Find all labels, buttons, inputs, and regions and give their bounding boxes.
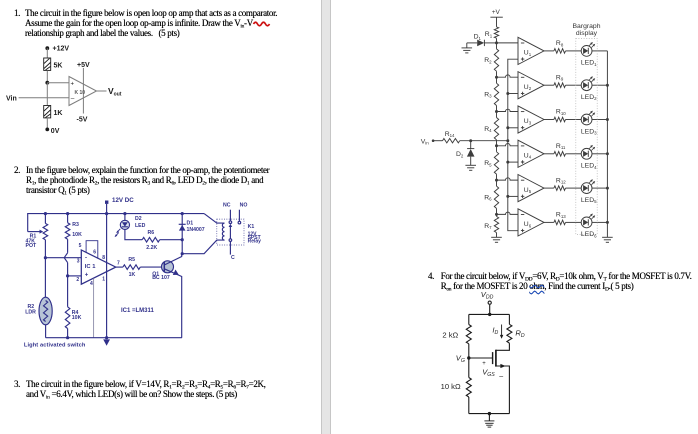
junction node 5 <box>495 179 498 182</box>
wire Vin to op-amp - input <box>19 97 69 99</box>
top bus wire <box>469 313 510 315</box>
U5 inverting mark <box>521 179 524 181</box>
resistor 1K <box>44 106 51 118</box>
wire R11 to LED4 <box>566 153 582 155</box>
wire plus bus to U2 <box>508 93 518 95</box>
supply rail +5V/-5V <box>82 68 84 114</box>
photoresistor R2 LDR <box>39 297 52 325</box>
pin 4 wire to ground bus <box>93 278 95 337</box>
wire op-amp output pin 7 to R5 <box>116 266 123 268</box>
junction plus bus row 3 <box>506 126 509 129</box>
wire node to relay coil bottom <box>182 240 224 254</box>
svg-text:2 kΩ: 2 kΩ <box>442 330 458 339</box>
page gap separator <box>321 0 331 434</box>
svg-text:+: + <box>85 273 89 279</box>
wire 5K to node A <box>46 70 48 82</box>
U1 noninverting mark <box>521 57 524 60</box>
resistor 5K <box>44 58 51 70</box>
svg-text:7: 7 <box>117 260 120 266</box>
svg-text:R5: R5 <box>128 257 135 263</box>
D1 symbol <box>179 223 186 225</box>
U1 inverting mark <box>521 42 524 44</box>
junction right bus row 6 <box>606 221 609 224</box>
wire U2 output to R9 <box>544 84 554 86</box>
op-amp U4 <box>518 140 544 167</box>
op-amp U2 <box>518 72 544 99</box>
wire op-amp output Vout <box>97 90 107 92</box>
wire LED5 to right bus <box>592 187 607 189</box>
op-amp U1 comparator <box>69 77 97 106</box>
12V DC supply square node <box>105 201 108 204</box>
junction bus/R3 <box>66 212 69 215</box>
ground at D2 <box>465 164 476 166</box>
resistor R9 <box>554 83 566 88</box>
LED4 light arrows <box>589 145 595 151</box>
svg-text:+5V: +5V <box>77 62 90 69</box>
svg-text:–: – <box>499 374 503 381</box>
wire R5 to Q1 base <box>140 266 164 268</box>
LED1 <box>581 46 592 57</box>
svg-text:5: 5 <box>79 243 82 249</box>
resistor 10k <box>468 358 470 378</box>
svg-text:R9: R9 <box>556 74 564 81</box>
problem 1 text <box>14 8 277 18</box>
svg-text:R10: R10 <box>556 109 566 116</box>
wiper wire of pot R1 <box>28 231 40 233</box>
VDD terminal <box>488 301 491 304</box>
U3 inverting mark <box>521 111 524 113</box>
svg-text:+: + <box>482 361 486 367</box>
Vin input <box>432 139 435 142</box>
U2 inverting mark <box>521 76 524 78</box>
wire U1 output to R8 <box>544 50 554 52</box>
wire LED to R6 <box>125 230 142 240</box>
node VG <box>467 356 470 359</box>
svg-text:-5V: -5V <box>77 117 88 124</box>
right return bus <box>606 51 608 237</box>
diode D2 <box>470 141 472 149</box>
op-amp U1 <box>518 37 544 64</box>
wire bus to 2k <box>468 314 470 324</box>
svg-text:Relay: Relay <box>248 239 262 245</box>
wire U6 output to R13 <box>544 221 554 223</box>
wire 12V node down to ground bus (supply rail) <box>106 204 108 338</box>
svg-text:NO: NO <box>240 202 248 208</box>
resistor R11 <box>554 152 566 157</box>
svg-text:R3: R3 <box>484 92 492 99</box>
junction node 1 <box>495 41 498 44</box>
svg-text:VGS: VGS <box>482 368 495 379</box>
svg-text:ID: ID <box>492 326 498 337</box>
svg-text:10 kΩ: 10 kΩ <box>441 382 461 391</box>
U4 inverting mark <box>521 145 524 147</box>
junction 12V-rail/ground bus <box>105 336 108 339</box>
0V node <box>45 128 49 132</box>
svg-text:10K: 10K <box>72 232 82 238</box>
svg-text:5K: 5K <box>54 63 63 70</box>
U6 inverting mark <box>521 214 524 216</box>
wire plus bus to U4 <box>508 161 518 163</box>
wire bus to RD <box>508 314 510 324</box>
LED D2 branch wire <box>124 214 126 221</box>
wire R10 to LED3 <box>566 119 582 121</box>
relay coil <box>222 223 224 240</box>
resistor R5 <box>496 146 498 152</box>
svg-text:R6: R6 <box>484 194 492 201</box>
bottom bus wire <box>469 413 510 415</box>
junction VDD/bus <box>488 313 491 316</box>
svg-text:6: 6 <box>93 250 96 256</box>
Q1 emitter wire with arrow <box>164 269 181 338</box>
wire R3 to junction <box>67 263 69 276</box>
junction plus bus row 5 <box>506 195 509 198</box>
problem 4 text <box>428 271 692 281</box>
U6 noninverting mark <box>521 229 524 232</box>
svg-text:R12: R12 <box>556 177 566 184</box>
svg-text:NC: NC <box>223 202 231 208</box>
wire node A to op-amp + input <box>47 82 69 84</box>
Q1 collector wire <box>164 254 181 265</box>
svg-text:D1: D1 <box>474 34 482 41</box>
svg-text:1K: 1K <box>54 110 63 117</box>
LED5 light arrows <box>589 179 595 185</box>
wire LED2 to right bus <box>592 84 607 86</box>
svg-text:-: - <box>85 256 87 262</box>
MOSFET Q1 channel bar <box>495 350 497 367</box>
resistor R8 <box>554 49 566 54</box>
svg-text:R11: R11 <box>556 143 566 150</box>
svg-text:LED4: LED4 <box>581 163 597 170</box>
junction node 4 <box>495 144 498 147</box>
junction node 2 <box>495 76 498 79</box>
wire plus bus to U3 <box>508 127 518 129</box>
ground symbol <box>488 414 490 421</box>
U2 noninverting mark <box>521 92 524 95</box>
svg-text:POT: POT <box>26 243 37 249</box>
wire R8 to LED1 <box>566 50 582 52</box>
svg-text:R14: R14 <box>445 131 455 138</box>
svg-text:LED2: LED2 <box>581 94 597 101</box>
+V power bar <box>490 16 502 18</box>
wire junction to op-amp noninverting input pin 2 <box>68 275 82 277</box>
ground symbol (arrow) <box>103 339 110 345</box>
wire hop over inverting wire <box>64 253 67 263</box>
wire LED1 to right bus <box>592 50 607 52</box>
wire node6 to U6 inverting input (hop over bus) <box>497 212 519 214</box>
resistor R3 <box>496 77 498 83</box>
wire LED4 to right bus <box>592 153 607 155</box>
wire 1K to 0V <box>46 118 48 129</box>
svg-text:LED6: LED6 <box>581 231 597 238</box>
LED6 light arrows <box>589 214 595 220</box>
junction right bus row 5 <box>606 187 609 190</box>
svg-text:LED1: LED1 <box>581 60 597 67</box>
svg-text:LED5: LED5 <box>581 197 597 204</box>
svg-text:2.2K: 2.2K <box>146 245 157 251</box>
noninverting bus <box>508 59 518 231</box>
svg-text:8: 8 <box>102 255 105 261</box>
junction right bus row 2 <box>606 84 609 87</box>
svg-text:VG: VG <box>456 353 465 364</box>
op-amp U6 <box>518 209 544 236</box>
problem 3 text <box>14 379 266 389</box>
relay K1 dashed box <box>217 219 244 245</box>
diode D1 <box>483 40 485 46</box>
ID current arrow <box>501 325 503 336</box>
wire U3 output to R10 <box>544 119 554 121</box>
svg-text:12V DC: 12V DC <box>112 197 134 204</box>
wire node2 to U2 inverting input (hop over bus) <box>497 75 519 77</box>
svg-text:K 10: K 10 <box>75 90 86 96</box>
resistor R3 10K <box>67 214 69 223</box>
ground bus wire <box>46 337 182 339</box>
svg-text:1: 1 <box>102 276 105 282</box>
wire node A down to R 1K <box>46 83 48 106</box>
svg-text:RD: RD <box>515 329 524 340</box>
svg-text:BC 107: BC 107 <box>152 275 170 281</box>
junction bus/R1 <box>44 212 47 215</box>
svg-text:display: display <box>576 30 598 37</box>
relay common C wire <box>229 241 231 254</box>
resistor R14 <box>443 139 460 143</box>
junction R1/R2/- input <box>44 256 47 259</box>
svg-text:–: – <box>71 96 75 103</box>
wire R13 to LED6 <box>566 221 582 223</box>
svg-text:R13: R13 <box>556 212 566 219</box>
wire U5 output to R12 <box>544 187 554 189</box>
wire R12 to LED5 <box>566 187 582 189</box>
junction ground <box>488 412 491 415</box>
wiper arrowhead <box>40 230 44 234</box>
wire top bus to relay coil <box>204 214 224 224</box>
svg-text:1K: 1K <box>129 272 136 278</box>
resistor R4 <box>496 112 498 118</box>
svg-text:LDR: LDR <box>25 310 36 316</box>
junction node 3 <box>495 110 498 113</box>
ground at D1 <box>466 43 468 48</box>
junction R4/ground bus <box>66 336 69 339</box>
relay NO terminal <box>238 210 240 222</box>
svg-text:R6: R6 <box>148 230 155 236</box>
svg-text:IC1 =LM311: IC1 =LM311 <box>121 308 155 314</box>
resistor R5 1K <box>123 265 140 270</box>
node A junction <box>45 81 49 85</box>
resistor R12 <box>554 186 566 191</box>
relay armature <box>229 239 232 242</box>
wire R2 to ground bus <box>45 325 47 338</box>
ground at R7 <box>491 236 502 238</box>
drain wire <box>496 343 510 350</box>
svg-text:R3: R3 <box>72 222 79 228</box>
balance pins 5-6 loop <box>86 241 98 259</box>
junction D1/collector/relay <box>181 252 184 255</box>
junction bus/LED branch <box>123 212 126 215</box>
junction bus/12V <box>105 212 108 215</box>
junction right bus row 4 <box>606 152 609 155</box>
svg-text:+V: +V <box>492 9 501 16</box>
LED2 light arrows <box>589 76 595 82</box>
wire R6 to D1 cathode node <box>160 239 183 241</box>
top supply bus wire <box>28 214 204 232</box>
junction plus bus row 4 <box>506 161 509 164</box>
junction node 6 <box>495 213 498 216</box>
svg-text:+12V: +12V <box>53 46 70 53</box>
svg-text:LED: LED <box>135 223 146 229</box>
junction bus/D1 <box>181 212 184 215</box>
U4 noninverting mark <box>521 160 524 163</box>
junction Vin/plus bus <box>506 139 509 142</box>
transistor Q1 BC107 <box>162 261 174 273</box>
U5 noninverting mark <box>521 195 524 198</box>
resistor R4 10K <box>65 307 70 329</box>
wire node5 to U5 inverting input (hop over bus) <box>497 178 519 180</box>
svg-text:D1: D1 <box>187 221 194 227</box>
svg-text:Vin: Vin <box>6 95 17 102</box>
potentiometer R1 47K <box>44 214 46 224</box>
svg-text:C: C <box>231 255 235 261</box>
junction right bus row 3 <box>606 118 609 121</box>
svg-text:R4: R4 <box>484 126 492 133</box>
svg-text:+: + <box>71 82 75 88</box>
resistor R1 <box>494 27 498 38</box>
junction Vin/D2 <box>469 139 472 142</box>
svg-text:R5: R5 <box>484 160 492 167</box>
svg-text:R1: R1 <box>485 31 493 38</box>
junction plus bus row 2 <box>506 92 509 95</box>
op-amp U3 <box>518 106 544 133</box>
resistor 2k <box>466 325 471 344</box>
svg-text:LED3: LED3 <box>581 128 597 135</box>
svg-text:R7: R7 <box>484 223 492 230</box>
LED D2 light arrows <box>115 229 121 237</box>
diode D1 1N4007 branch <box>181 214 183 254</box>
wire plus bus to U5 <box>508 195 518 197</box>
resistor R6 <box>496 180 498 186</box>
U3 noninverting mark <box>521 126 524 129</box>
relay NC terminal <box>229 210 231 221</box>
svg-text:R2: R2 <box>484 57 492 64</box>
wire LED6 to right bus <box>592 221 607 223</box>
svg-text:Bargraph: Bargraph <box>573 23 601 30</box>
resistor R6 2.2K <box>142 237 160 242</box>
resistor RD <box>507 324 512 343</box>
LED4 <box>581 148 592 159</box>
svg-text:D2: D2 <box>456 151 464 158</box>
svg-text:4: 4 <box>90 281 93 287</box>
wire node1 to U1 inverting input <box>497 42 519 44</box>
wire R9 to LED2 <box>566 84 582 86</box>
wire node1 to diode D1 <box>484 42 496 44</box>
wire node4 to U4 inverting input (hop over bus) <box>497 144 519 146</box>
wire junction to op-amp inverting input pin 3 <box>45 257 81 259</box>
resistor R2 <box>496 43 498 49</box>
ground at right bus <box>602 236 613 238</box>
+12V supply node <box>45 46 49 50</box>
svg-text:1N4007: 1N4007 <box>187 227 205 233</box>
LED D2 <box>120 220 129 229</box>
resistor R7 <box>496 214 498 216</box>
LED6 <box>581 217 592 228</box>
LED1 light arrows <box>589 42 595 48</box>
svg-text:Vin: Vin <box>421 138 430 145</box>
op-amp U5 <box>518 175 544 202</box>
gate wire <box>469 357 493 359</box>
wire junction down to R4 <box>67 276 69 307</box>
wire R14 to plus bus <box>460 140 508 142</box>
svg-text:2: 2 <box>76 277 79 283</box>
MOSFET gate bar <box>492 352 494 364</box>
resistor R10 <box>554 117 566 122</box>
svg-text:IC 1: IC 1 <box>85 264 96 270</box>
LED3 light arrows <box>589 111 595 117</box>
svg-text:0V: 0V <box>51 128 60 135</box>
svg-text:R8: R8 <box>556 40 564 47</box>
wire U4 output to R11 <box>544 153 554 155</box>
LED3 <box>581 114 592 125</box>
wire LED3 to right bus <box>592 119 607 121</box>
LED5 <box>581 183 592 194</box>
svg-text:3: 3 <box>77 259 80 265</box>
LED2 <box>581 80 592 91</box>
op-amp IC1 LM311 <box>81 250 116 284</box>
svg-text:Vout: Vout <box>108 86 122 98</box>
junction R3-R4/+ input <box>66 274 69 277</box>
resistor R13 <box>554 220 566 225</box>
source wire with arrow <box>496 366 510 414</box>
problem 2 text <box>14 165 269 175</box>
svg-text:K1: K1 <box>248 224 255 230</box>
wire +12V to R 5K <box>46 48 48 58</box>
svg-text:Light activated switch: Light activated switch <box>24 343 86 349</box>
wire node3 to U3 inverting input (hop over bus) <box>497 109 519 111</box>
svg-text:10K: 10K <box>72 315 82 321</box>
svg-text:VDD: VDD <box>481 290 494 301</box>
bargraph dotted box <box>576 39 597 235</box>
svg-text:D2: D2 <box>135 216 142 222</box>
junction D1/R6 <box>181 238 184 241</box>
wire R1 to photoresistor R2 <box>44 258 46 298</box>
